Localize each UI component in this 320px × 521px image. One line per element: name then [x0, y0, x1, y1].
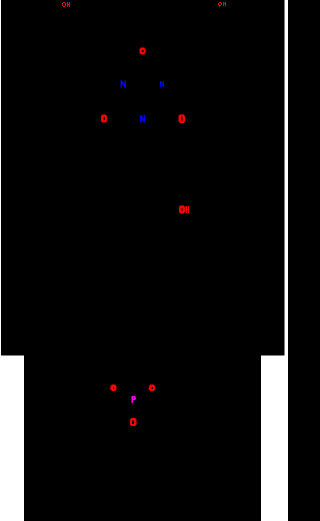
bond stub bottom-right of ring N left [124, 87, 125, 88]
white bottom-left margin rect [0, 356, 24, 521]
ring N right [161, 81, 164, 87]
bond stub right of phosphorus P [135, 398, 136, 399]
hydroxyl OH middle [180, 206, 189, 213]
phosphite O bottom [130, 419, 136, 426]
phosphite O upper-right [150, 385, 155, 391]
ring N left [121, 81, 125, 88]
hydroxyl OH top-left [62, 2, 70, 7]
ring N center [141, 115, 145, 123]
hydroxyl OH top-right [218, 2, 226, 6]
bond stub below OH top-left O [63, 6, 66, 7]
carbonyl O left [101, 115, 106, 122]
bond stub right of carbonyl O right [184, 118, 185, 119]
phosphite O upper-left [111, 385, 116, 391]
white right edge strip [285, 0, 288, 521]
bond stub left of phosphite O upper-right [149, 388, 150, 389]
bond stub below OH top-right O [219, 6, 220, 7]
carbonyl O right [179, 115, 184, 122]
phosphorus P [132, 396, 135, 403]
white bottom-right margin rect [261, 356, 288, 521]
bond stub right of carbonyl O left [107, 118, 108, 119]
bond stub right of carbonyl O top [145, 50, 146, 51]
white left edge column [0, 0, 1, 521]
carbonyl O top [140, 48, 145, 54]
bond stub left of phosphite O upper-left [110, 388, 111, 389]
